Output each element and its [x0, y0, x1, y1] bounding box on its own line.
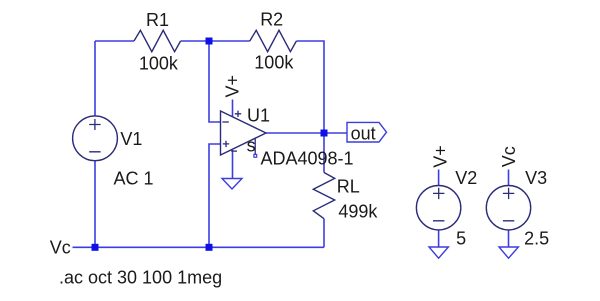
svg-text:out: out [351, 124, 376, 144]
svg-text:100k: 100k [254, 53, 294, 73]
svg-text:Vc: Vc [50, 238, 71, 258]
svg-text:V2: V2 [455, 168, 477, 188]
svg-text:V1: V1 [120, 129, 142, 149]
svg-text:ADA4098-1: ADA4098-1 [261, 148, 354, 168]
svg-text:499k: 499k [338, 202, 378, 222]
svg-text:AC 1: AC 1 [114, 169, 154, 189]
svg-text:s: s [247, 135, 256, 155]
svg-text:V3: V3 [525, 168, 547, 188]
svg-text:5: 5 [456, 229, 466, 249]
svg-text:.ac oct 30 100 1meg: .ac oct 30 100 1meg [59, 268, 222, 288]
svg-text:RL: RL [337, 176, 360, 196]
svg-text:100k: 100k [139, 53, 179, 73]
svg-text:R2: R2 [260, 10, 283, 30]
svg-text:V+: V+ [430, 145, 450, 168]
svg-text:R1: R1 [146, 10, 169, 30]
svg-text:2.5: 2.5 [524, 229, 549, 249]
svg-text:U1: U1 [247, 105, 270, 125]
svg-text:V+: V+ [222, 75, 242, 98]
svg-text:Vc: Vc [499, 146, 519, 167]
